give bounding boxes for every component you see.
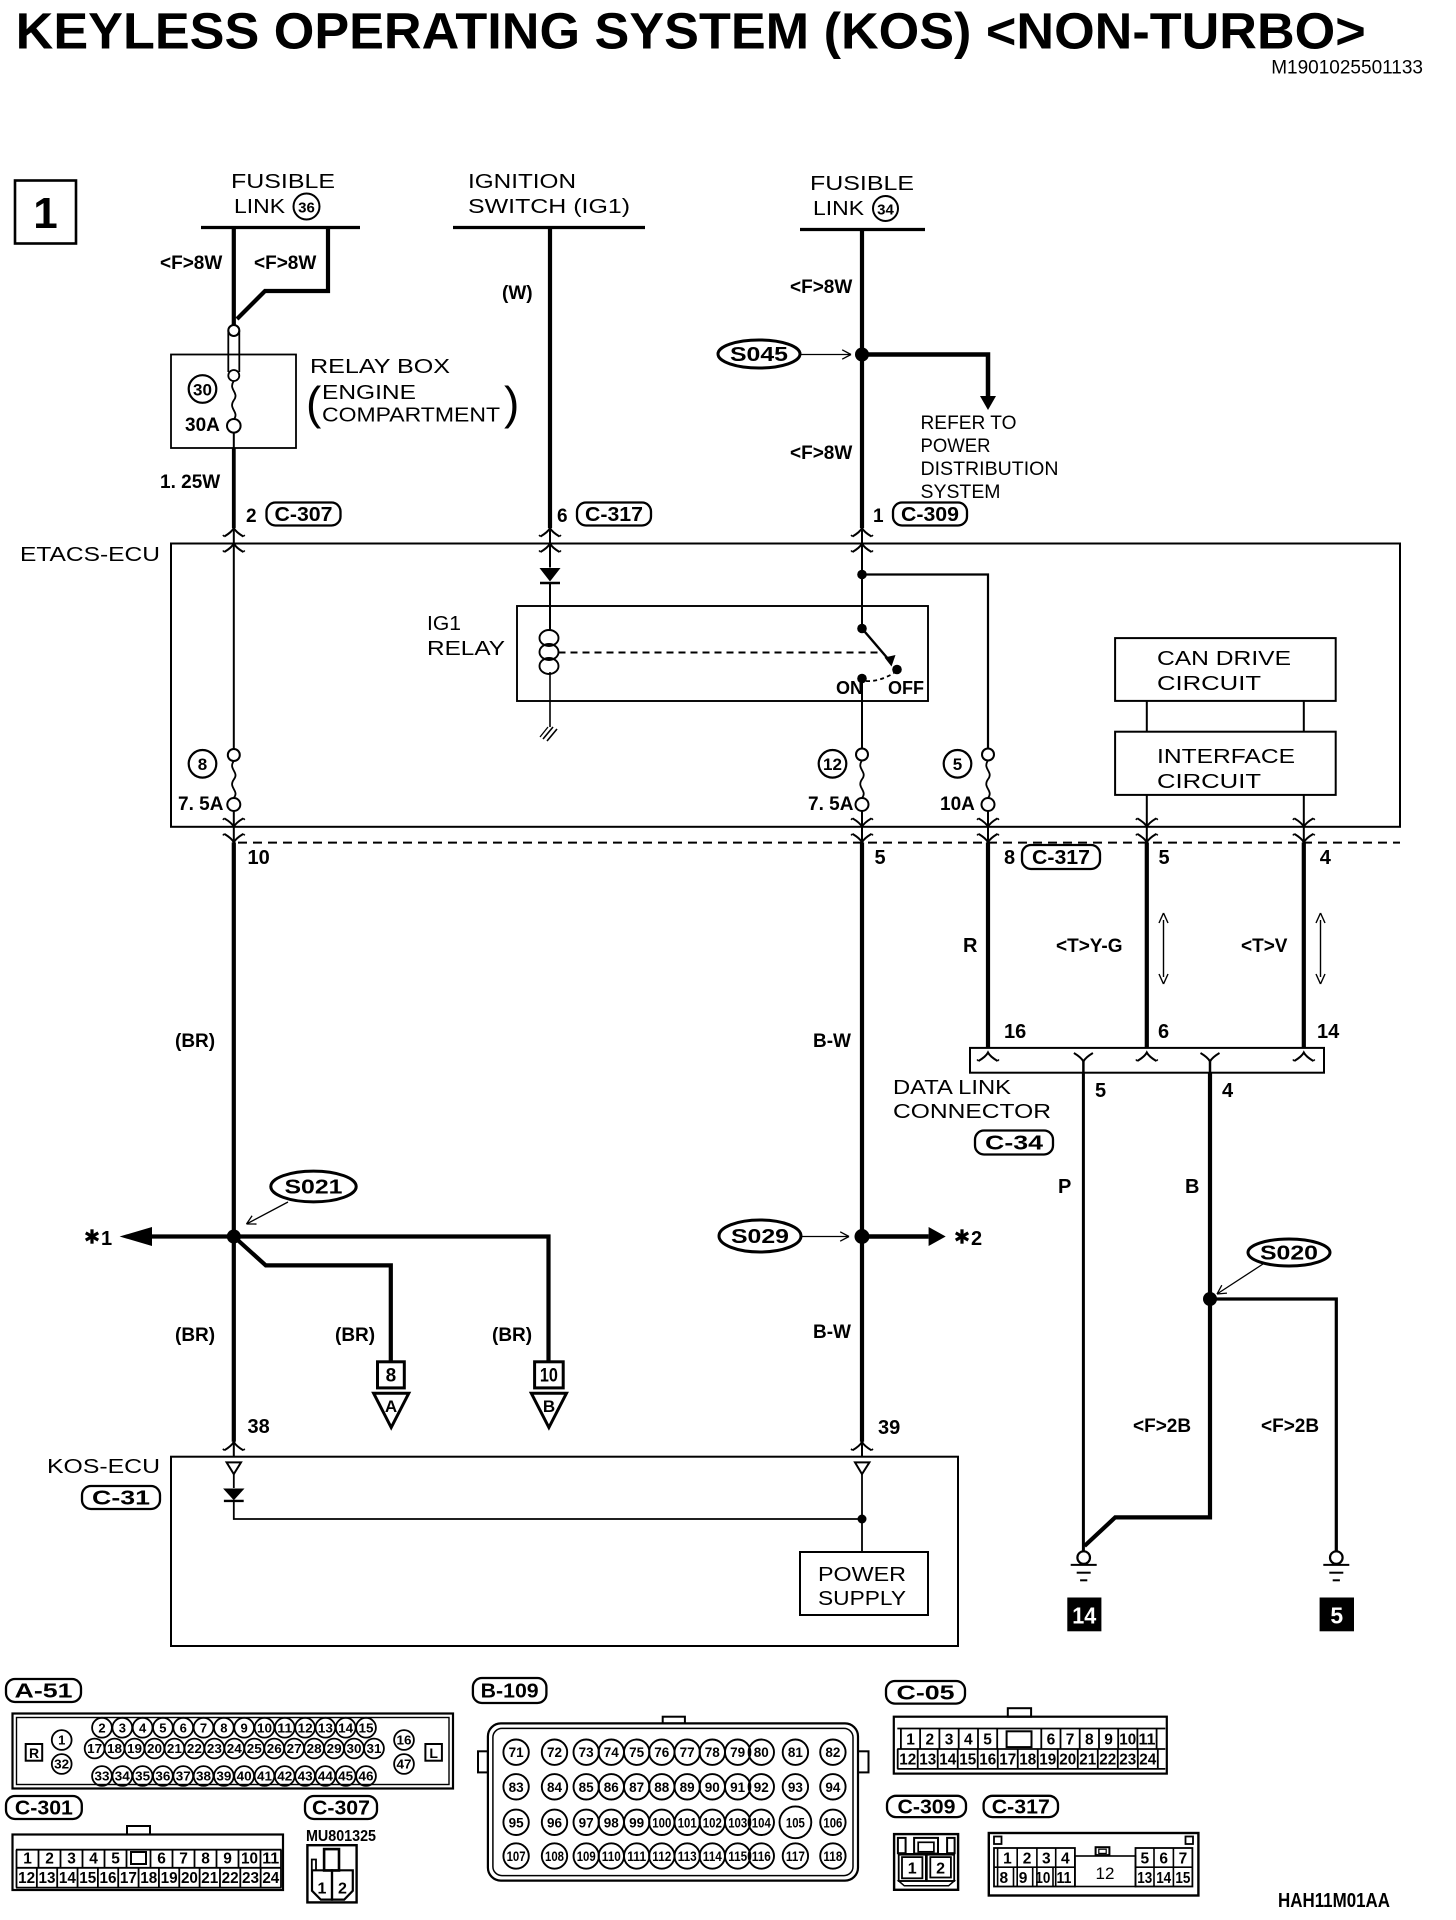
svg-text:(BR): (BR) [175,1325,215,1346]
svg-text:34: 34 [877,202,894,219]
svg-text:80: 80 [754,1745,769,1760]
svg-text:SWITCH (IG1): SWITCH (IG1) [468,196,630,218]
svg-text:4: 4 [1320,847,1332,869]
svg-text:15: 15 [959,1751,976,1768]
svg-text:P: P [1058,1176,1071,1198]
svg-text:8: 8 [198,755,207,774]
svg-text:LINK: LINK [813,198,865,220]
svg-text:102: 102 [703,1815,722,1830]
svg-text:POWER: POWER [818,1563,906,1586]
svg-text:6: 6 [557,506,568,527]
svg-text:<F>8W: <F>8W [790,277,852,298]
svg-text:47: 47 [397,1757,412,1772]
svg-text:112: 112 [652,1849,671,1864]
svg-text:1: 1 [23,1850,32,1867]
svg-text:S045: S045 [730,344,788,366]
svg-text:HAH11M01AA: HAH11M01AA [1278,1890,1390,1912]
svg-text:45: 45 [338,1769,353,1784]
svg-text:INTERFACE: INTERFACE [1157,745,1295,768]
svg-text:9: 9 [1019,1870,1028,1887]
svg-text:14: 14 [338,1720,354,1735]
svg-text:(W): (W) [502,283,533,304]
svg-text:5: 5 [1140,1851,1149,1868]
svg-text:104: 104 [752,1815,771,1830]
svg-text:73: 73 [579,1745,595,1760]
svg-text:8: 8 [999,1870,1008,1887]
svg-text:5: 5 [953,755,962,774]
svg-text:98: 98 [604,1815,620,1830]
svg-text:5: 5 [1159,847,1170,869]
svg-text:2: 2 [45,1850,54,1867]
svg-text:14: 14 [939,1751,956,1768]
svg-text:C-34: C-34 [985,1133,1044,1155]
svg-text:89: 89 [680,1780,695,1795]
svg-text:11: 11 [1056,1870,1071,1887]
svg-text:22: 22 [222,1870,239,1887]
svg-text:16: 16 [1004,1021,1026,1043]
svg-text:SYSTEM: SYSTEM [921,482,1001,503]
svg-text:10: 10 [540,1366,558,1387]
svg-text:36: 36 [155,1769,170,1784]
svg-text:33: 33 [95,1769,110,1784]
svg-text:DISTRIBUTION: DISTRIBUTION [921,459,1059,480]
svg-text:15: 15 [79,1870,96,1887]
svg-text:27: 27 [287,1741,302,1756]
svg-text:RELAY BOX: RELAY BOX [310,355,450,378]
svg-text:C-309: C-309 [898,1796,956,1818]
svg-text:22: 22 [187,1741,202,1756]
svg-text:(: ( [306,377,322,429]
svg-text:38: 38 [196,1769,211,1784]
svg-text:C-317: C-317 [585,504,643,526]
svg-text:CONNECTOR: CONNECTOR [893,1100,1051,1123]
svg-text:43: 43 [298,1769,313,1784]
svg-text:2: 2 [1023,1851,1032,1868]
svg-text:110: 110 [602,1849,621,1864]
svg-text:6: 6 [180,1720,187,1735]
svg-text:CAN DRIVE: CAN DRIVE [1157,647,1291,670]
svg-text:105: 105 [786,1815,805,1830]
svg-text:12: 12 [823,755,842,774]
svg-text:B-W: B-W [813,1031,851,1052]
svg-text:S020: S020 [1260,1243,1318,1265]
svg-text:39: 39 [216,1769,231,1784]
svg-text:11: 11 [277,1720,292,1735]
svg-text:FUSIBLE: FUSIBLE [810,173,914,195]
svg-text:26: 26 [267,1741,282,1756]
svg-text:118: 118 [823,1849,842,1864]
svg-text:113: 113 [678,1849,697,1864]
svg-text:R: R [29,1745,39,1761]
svg-text:(BR): (BR) [492,1325,532,1346]
svg-text:84: 84 [547,1780,563,1795]
svg-text:14: 14 [1317,1021,1340,1043]
svg-text:21: 21 [201,1870,218,1887]
svg-text:<T>Y-G: <T>Y-G [1056,936,1123,957]
svg-text:103: 103 [728,1815,747,1830]
svg-text:L: L [429,1745,438,1761]
svg-text:A-51: A-51 [15,1681,73,1703]
svg-text:12: 12 [899,1751,916,1768]
svg-text:DATA LINK: DATA LINK [893,1076,1011,1099]
svg-text:8: 8 [386,1366,397,1387]
svg-text:19: 19 [127,1741,142,1756]
svg-text:ENGINE: ENGINE [322,381,416,404]
svg-text:<F>8W: <F>8W [160,253,222,274]
svg-text:2: 2 [338,1881,347,1898]
svg-text:7: 7 [1066,1732,1075,1749]
svg-text:A: A [385,1397,397,1416]
svg-text:12: 12 [1096,1864,1115,1883]
svg-text:87: 87 [629,1780,644,1795]
svg-text:99: 99 [629,1815,644,1830]
svg-text:114: 114 [703,1849,722,1864]
svg-text:OFF: OFF [888,678,924,698]
svg-text:95: 95 [509,1815,525,1830]
svg-text:13: 13 [39,1870,56,1887]
svg-text:B: B [543,1397,555,1416]
svg-text:12: 12 [18,1870,35,1887]
svg-text:<F>8W: <F>8W [790,443,852,464]
svg-text:23: 23 [1119,1751,1136,1768]
svg-text:4: 4 [1222,1080,1234,1102]
svg-text:3: 3 [119,1720,126,1735]
svg-text:22: 22 [1099,1751,1116,1768]
svg-text:108: 108 [545,1849,564,1864]
svg-text:83: 83 [509,1780,525,1795]
svg-text:C-31: C-31 [92,1488,150,1510]
svg-text:1: 1 [33,189,57,238]
svg-text:4: 4 [1061,1851,1070,1868]
svg-text:2: 2 [936,1861,945,1878]
svg-text:71: 71 [509,1745,525,1760]
svg-text:IG1: IG1 [427,612,461,635]
svg-text:1: 1 [906,1732,915,1749]
svg-text:7. 5A: 7. 5A [178,794,224,815]
svg-text:4: 4 [964,1732,973,1749]
svg-text:8: 8 [201,1850,210,1867]
svg-text:CIRCUIT: CIRCUIT [1157,672,1262,695]
svg-text:9: 9 [241,1720,248,1735]
svg-text:7: 7 [1179,1851,1188,1868]
svg-text:3: 3 [945,1732,954,1749]
svg-text:16: 16 [100,1870,117,1887]
svg-text:10: 10 [248,847,270,869]
svg-text:72: 72 [547,1745,562,1760]
svg-text:19: 19 [1039,1751,1056,1768]
svg-text:REFER TO: REFER TO [921,413,1017,434]
svg-text:SUPPLY: SUPPLY [818,1587,906,1610]
svg-text:42: 42 [277,1769,292,1784]
svg-text:35: 35 [135,1769,150,1784]
svg-text:11: 11 [262,1850,279,1867]
svg-text:81: 81 [788,1745,804,1760]
svg-text:POWER: POWER [921,436,991,457]
svg-text:10A: 10A [940,794,975,815]
svg-text:17: 17 [120,1870,137,1887]
svg-text:14: 14 [59,1870,76,1887]
svg-text:38: 38 [248,1416,270,1438]
svg-text:74: 74 [604,1745,620,1760]
svg-text:88: 88 [654,1780,670,1795]
svg-text:2: 2 [246,506,257,527]
svg-text:18: 18 [140,1870,157,1887]
svg-text:5: 5 [159,1720,166,1735]
svg-text:82: 82 [825,1745,840,1760]
svg-text:96: 96 [547,1815,563,1830]
svg-text:116: 116 [752,1849,771,1864]
svg-text:C-301: C-301 [15,1798,73,1820]
svg-text:37: 37 [176,1769,191,1784]
svg-text:<T>V: <T>V [1241,936,1288,957]
svg-text:C-307: C-307 [275,504,333,526]
svg-text:11: 11 [1139,1732,1156,1749]
svg-text:85: 85 [579,1780,595,1795]
svg-text:40: 40 [237,1769,252,1784]
svg-text:117: 117 [786,1849,805,1864]
svg-text:20: 20 [1059,1751,1076,1768]
svg-text:1: 1 [873,506,884,527]
svg-text:6: 6 [157,1850,166,1867]
svg-text:5: 5 [1330,1603,1343,1629]
svg-text:1: 1 [58,1733,65,1748]
svg-text:23: 23 [242,1870,259,1887]
svg-text:10: 10 [241,1850,258,1867]
svg-text:18: 18 [107,1741,122,1756]
svg-text:24: 24 [227,1741,243,1756]
svg-text:1: 1 [908,1861,917,1878]
svg-text:44: 44 [318,1769,334,1784]
svg-text:90: 90 [705,1780,720,1795]
svg-text:1. 25W: 1. 25W [160,472,220,493]
svg-text:14: 14 [1072,1603,1096,1629]
svg-text:79: 79 [730,1745,745,1760]
svg-text:LINK: LINK [234,196,286,218]
svg-text:CIRCUIT: CIRCUIT [1157,770,1262,793]
svg-text:19: 19 [161,1870,178,1887]
svg-text:B-W: B-W [813,1322,851,1343]
svg-text:25: 25 [247,1741,262,1756]
svg-text:FUSIBLE: FUSIBLE [231,171,335,193]
svg-text:6: 6 [1158,1021,1169,1043]
svg-text:13: 13 [318,1720,333,1735]
svg-text:16: 16 [397,1733,412,1748]
svg-text:20: 20 [181,1870,198,1887]
svg-text:10: 10 [1035,1870,1050,1887]
svg-text:111: 111 [627,1849,646,1864]
svg-text:B: B [1185,1176,1199,1198]
svg-text:24: 24 [262,1870,279,1887]
svg-text:30: 30 [347,1741,362,1756]
svg-text:30A: 30A [185,415,220,436]
svg-text:31: 31 [366,1741,381,1756]
svg-text:15: 15 [359,1720,374,1735]
svg-text:R: R [963,935,978,957]
svg-text:6: 6 [1159,1851,1168,1868]
svg-text:28: 28 [307,1741,322,1756]
svg-text:115: 115 [728,1849,747,1864]
svg-text:MU801325: MU801325 [306,1828,376,1845]
svg-text:32: 32 [54,1757,69,1772]
svg-text:M1901025501133: M1901025501133 [1271,58,1423,79]
svg-text:101: 101 [678,1815,697,1830]
svg-text:18: 18 [1019,1751,1036,1768]
svg-text:1: 1 [101,1228,112,1250]
svg-text:14: 14 [1156,1870,1171,1887]
svg-text:1: 1 [1003,1851,1012,1868]
svg-text:97: 97 [579,1815,594,1830]
svg-text:C-317: C-317 [992,1796,1050,1818]
svg-text:36: 36 [298,200,315,217]
svg-text:34: 34 [115,1769,131,1784]
svg-text:B-109: B-109 [481,1681,539,1703]
svg-text:C-309: C-309 [901,504,959,526]
svg-text:5: 5 [875,847,886,869]
svg-text:15: 15 [1175,1870,1190,1887]
svg-text:4: 4 [139,1720,147,1735]
svg-text:16: 16 [979,1751,996,1768]
svg-text:46: 46 [359,1769,374,1784]
svg-text:13: 13 [919,1751,936,1768]
svg-text:9: 9 [223,1850,232,1867]
svg-text:C-05: C-05 [897,1682,955,1704]
svg-text:8: 8 [220,1720,227,1735]
svg-text:5: 5 [111,1850,120,1867]
svg-text:5: 5 [1095,1080,1106,1102]
svg-text:C-307: C-307 [312,1798,370,1820]
svg-text:7: 7 [179,1850,188,1867]
svg-text:29: 29 [327,1741,342,1756]
svg-text:86: 86 [604,1780,620,1795]
svg-text:107: 107 [507,1849,526,1864]
svg-text:39: 39 [878,1417,900,1439]
svg-text:106: 106 [823,1815,842,1830]
svg-text:ETACS-ECU: ETACS-ECU [20,543,160,566]
svg-text:8: 8 [1085,1732,1094,1749]
svg-text:COMPARTMENT: COMPARTMENT [322,404,501,427]
svg-text:7: 7 [200,1720,207,1735]
svg-text:91: 91 [730,1780,746,1795]
svg-text:3: 3 [67,1850,76,1867]
svg-text:92: 92 [754,1780,769,1795]
svg-text:75: 75 [629,1745,645,1760]
svg-text:93: 93 [788,1780,804,1795]
svg-text:IGNITION: IGNITION [468,171,576,193]
svg-text:): ) [504,377,519,429]
svg-text:S021: S021 [285,1177,343,1199]
svg-text:2: 2 [971,1228,982,1250]
svg-text:S029: S029 [731,1226,789,1248]
svg-text:12: 12 [298,1720,313,1735]
svg-text:(BR): (BR) [175,1031,215,1052]
svg-text:78: 78 [705,1745,721,1760]
svg-text:30: 30 [193,381,212,400]
svg-text:6: 6 [1047,1732,1056,1749]
svg-text:77: 77 [680,1745,695,1760]
svg-text:94: 94 [825,1780,841,1795]
svg-text:10: 10 [257,1720,272,1735]
svg-text:2: 2 [925,1732,934,1749]
svg-text:5: 5 [983,1732,992,1749]
svg-text:KOS-ECU: KOS-ECU [47,1455,160,1478]
svg-text:<F>2B: <F>2B [1133,1416,1191,1437]
svg-text:(BR): (BR) [335,1325,375,1346]
svg-text:24: 24 [1139,1751,1156,1768]
svg-text:RELAY: RELAY [427,637,505,660]
svg-text:7. 5A: 7. 5A [808,794,854,815]
svg-text:20: 20 [147,1741,162,1756]
svg-text:76: 76 [654,1745,670,1760]
svg-text:41: 41 [257,1769,272,1784]
svg-text:17: 17 [999,1751,1016,1768]
svg-text:3: 3 [1042,1851,1051,1868]
svg-text:1: 1 [318,1881,327,1898]
svg-text:23: 23 [207,1741,222,1756]
svg-text:2: 2 [98,1720,105,1735]
svg-text:109: 109 [577,1849,596,1864]
svg-text:17: 17 [87,1741,102,1756]
svg-text:C-317: C-317 [1032,847,1090,869]
svg-text:100: 100 [652,1815,671,1830]
svg-text:8: 8 [1004,847,1015,869]
svg-text:4: 4 [89,1850,98,1867]
svg-text:<F>8W: <F>8W [254,253,316,274]
svg-text:21: 21 [167,1741,182,1756]
svg-text:9: 9 [1104,1732,1113,1749]
svg-text:13: 13 [1137,1870,1152,1887]
svg-text:KEYLESS OPERATING SYSTEM (KOS): KEYLESS OPERATING SYSTEM (KOS) <NON-TURB… [16,3,1366,60]
svg-text:<F>2B: <F>2B [1261,1416,1319,1437]
svg-text:10: 10 [1119,1732,1136,1749]
svg-text:21: 21 [1079,1751,1096,1768]
